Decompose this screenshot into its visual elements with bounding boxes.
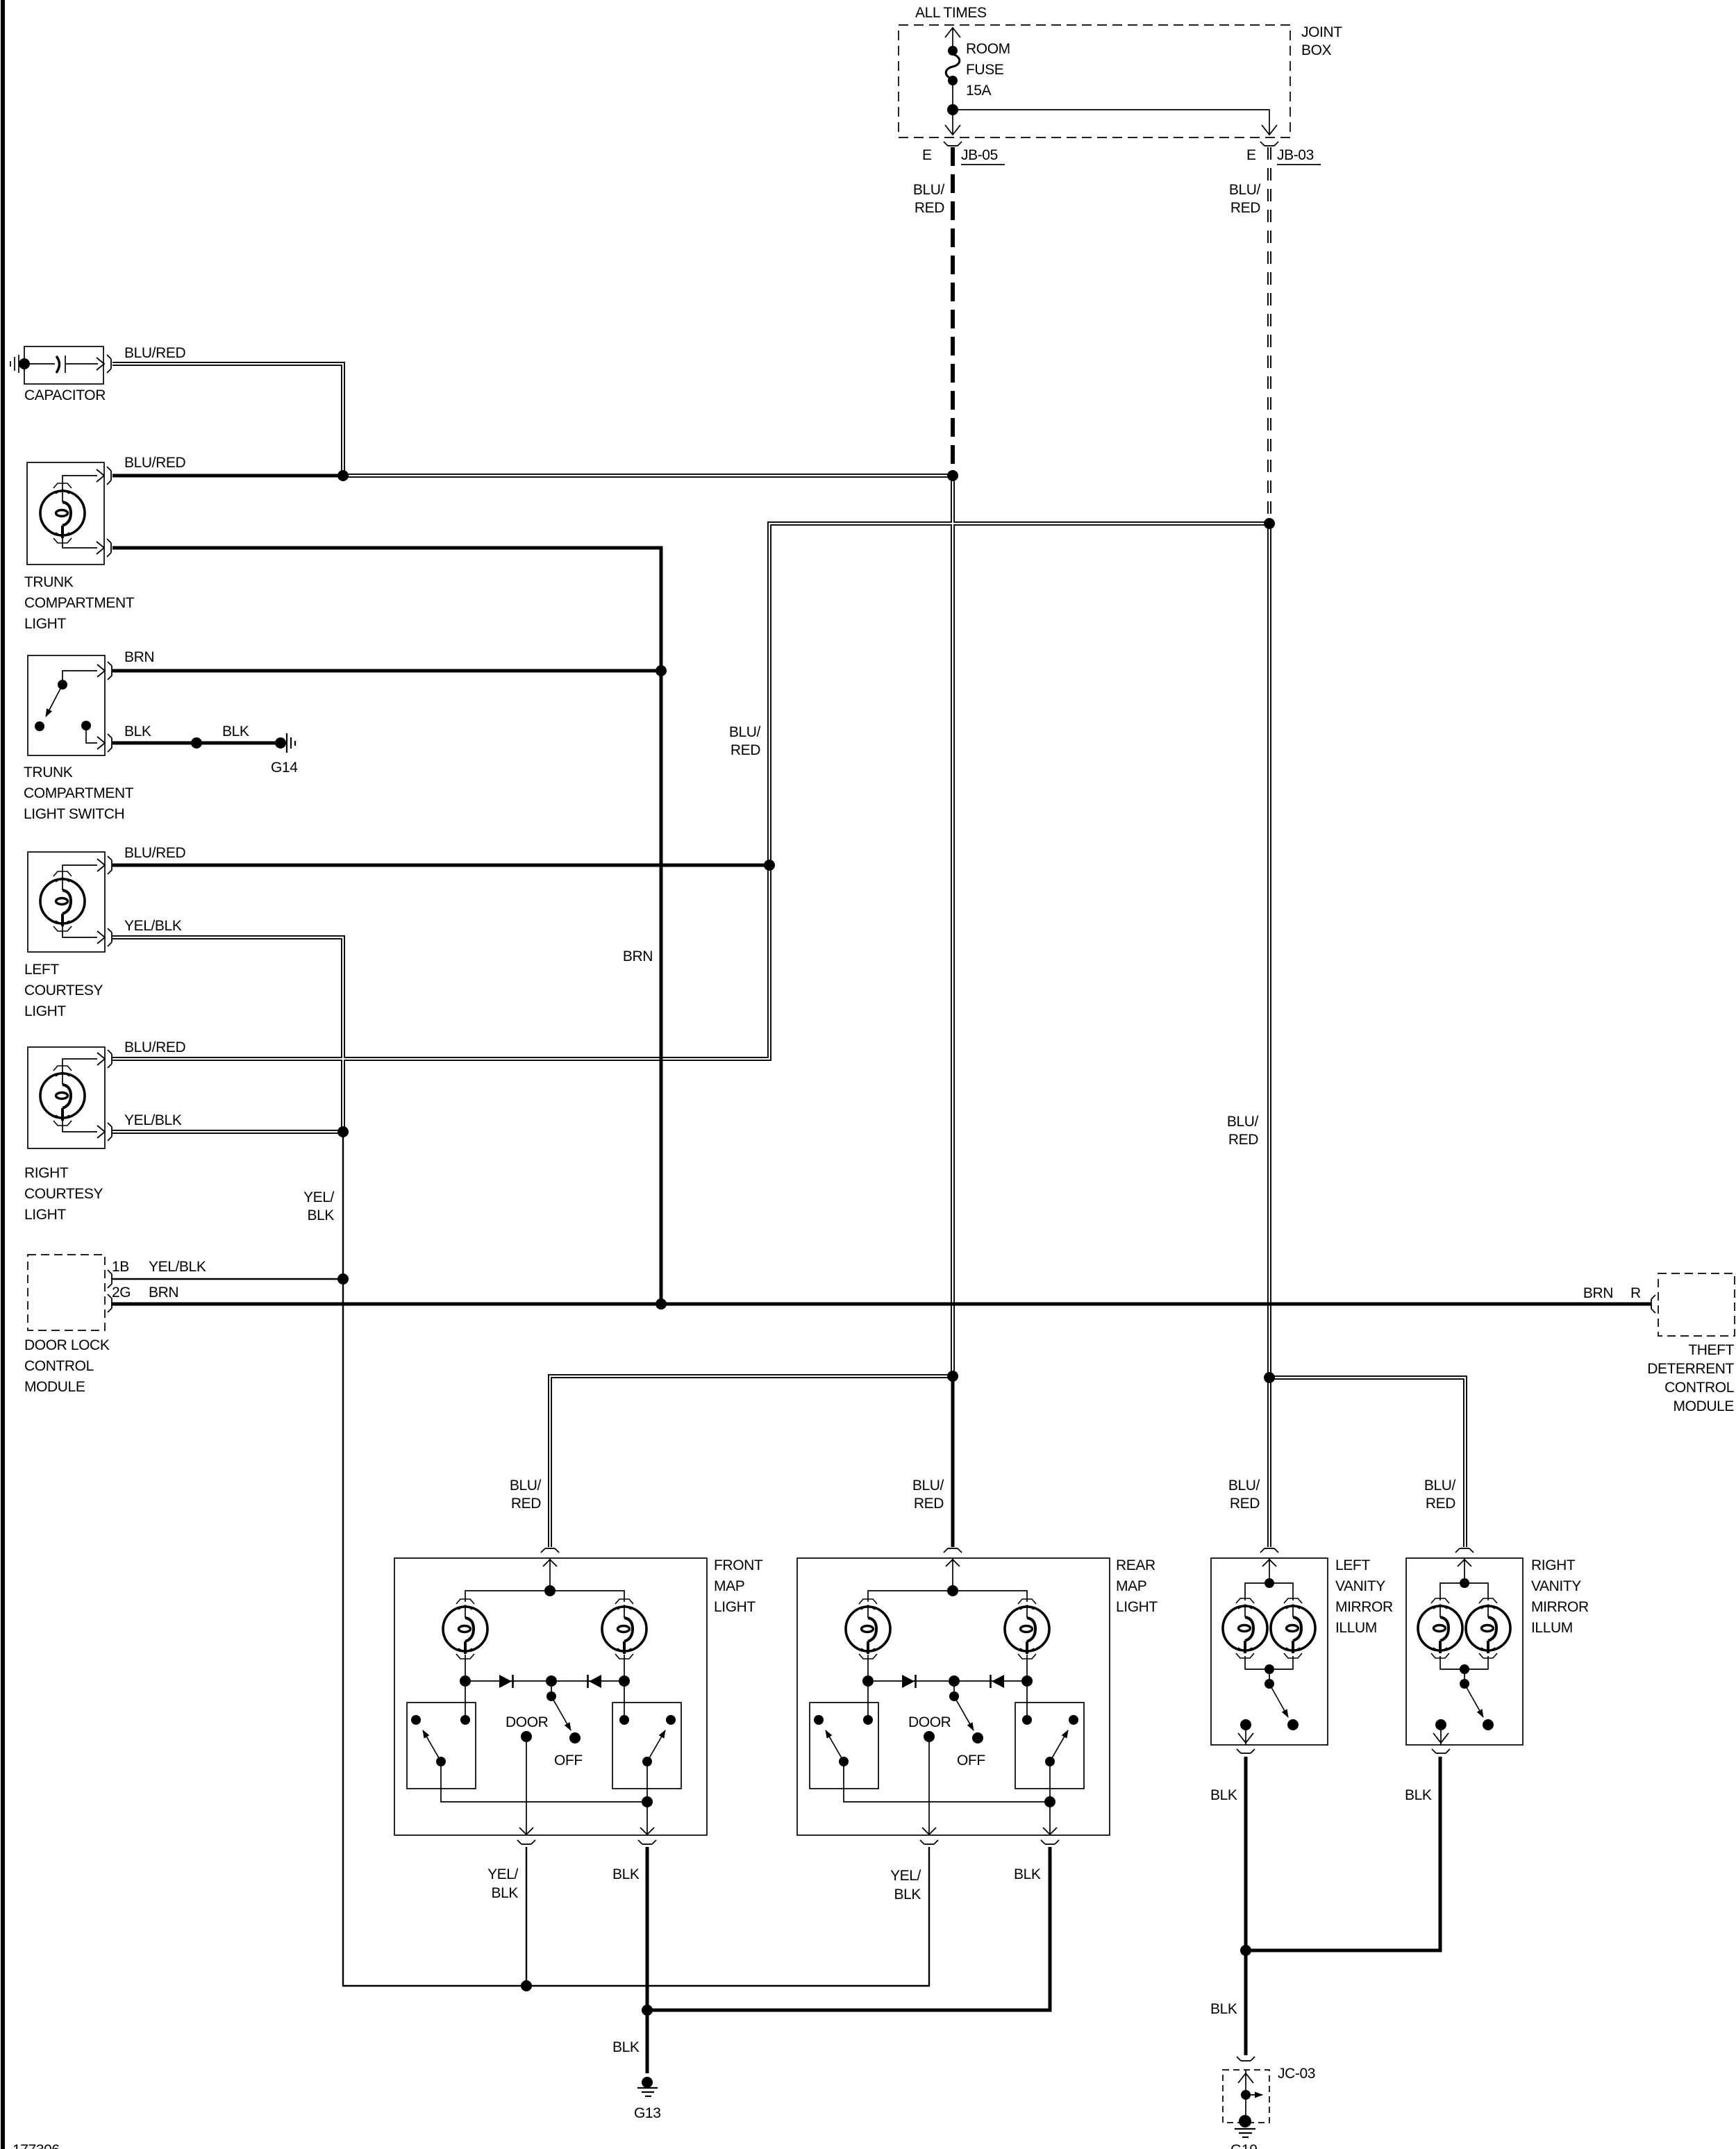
- svg-text:RED: RED: [1230, 200, 1260, 216]
- svg-text:CONTROL: CONTROL: [24, 1358, 94, 1374]
- svg-text:TRUNK: TRUNK: [24, 574, 74, 590]
- wire right vanity BLK join: [1246, 1757, 1440, 1950]
- svg-text:DOOR: DOOR: [506, 1714, 549, 1730]
- svg-text:JB-05: JB-05: [961, 147, 998, 163]
- svg-text:LIGHT: LIGHT: [1116, 1599, 1158, 1615]
- svg-text:ILLUM: ILLUM: [1335, 1620, 1377, 1636]
- lamp trunk compartment bulb: [40, 491, 85, 538]
- wire BLU/RED mid branch to courtesy lights: [112, 524, 1267, 1059]
- page border left edge: [1, 0, 5, 2149]
- wire right courtesy YEL/BLK: [112, 1130, 340, 1134]
- svg-text:RED: RED: [1230, 1496, 1260, 1512]
- svg-text:BLU/: BLU/: [1229, 182, 1261, 198]
- wire fuse feed vertical: [952, 28, 953, 47]
- wire BLU/RED branch to rear map light: [951, 1376, 955, 1547]
- wire BRN main run to theft deterrent module: [111, 1303, 1651, 1306]
- svg-text:DOOR: DOOR: [908, 1714, 951, 1730]
- wire lamp bus: [465, 1591, 624, 1602]
- node JC-03 branch arrow: [1246, 2094, 1262, 2096]
- svg-text:BLU/RED: BLU/RED: [124, 345, 185, 361]
- svg-text:BOX: BOX: [1301, 42, 1332, 58]
- wire trunk light BRN: [112, 548, 661, 671]
- svg-text:CAPACITOR: CAPACITOR: [24, 387, 106, 403]
- switch left door switch (box): [407, 1703, 476, 1789]
- capacitor C (noise suppression): [10, 346, 103, 384]
- svg-text:BLU/RED: BLU/RED: [124, 1039, 185, 1055]
- svg-text:R: R: [1630, 1285, 1641, 1301]
- svg-text:JB-03: JB-03: [1277, 147, 1314, 163]
- node BLK bottom junction: [642, 2005, 653, 2016]
- svg-text:ALL TIMES: ALL TIMES: [915, 5, 987, 21]
- svg-text:REAR: REAR: [1116, 1557, 1155, 1573]
- connector door lock pin 1B: [108, 1270, 112, 1288]
- svg-text:MIRROR: MIRROR: [1531, 1599, 1589, 1615]
- svg-text:BLU/RED: BLU/RED: [124, 455, 185, 471]
- switch right door switch (box): [612, 1703, 681, 1789]
- svg-text:G14: G14: [271, 760, 298, 776]
- svg-text:ROOM: ROOM: [966, 41, 1010, 57]
- connector YEL/BLK exit: [517, 1828, 535, 1844]
- svg-text:E: E: [1246, 147, 1256, 163]
- svg-text:LIGHT SWITCH: LIGHT SWITCH: [24, 806, 124, 822]
- node BLU/RED JB-05 junction: [947, 470, 958, 481]
- node BRN trunk junction: [656, 665, 667, 676]
- svg-text:CONTROL: CONTROL: [1664, 1380, 1734, 1396]
- svg-text:LIGHT: LIGHT: [24, 1207, 66, 1223]
- svg-text:BLU/: BLU/: [1228, 1478, 1260, 1494]
- svg-text:ILLUM: ILLUM: [1531, 1620, 1573, 1636]
- node capacitor/trunk BLU/RED junction: [337, 470, 349, 481]
- svg-text:BLU/: BLU/: [913, 182, 945, 198]
- wire left vanity BLK: [1244, 1757, 1248, 2055]
- connector trunk light BRN pin: [97, 539, 111, 557]
- rear map light (assembly box, copy shifted): [797, 1548, 1110, 1844]
- svg-text:DOOR LOCK: DOOR LOCK: [24, 1337, 110, 1353]
- wire switch pivot stub: [551, 1681, 552, 1694]
- fuse ROOM FUSE 15A: [948, 46, 958, 56]
- svg-text:THEFT: THEFT: [1688, 1342, 1734, 1358]
- lamp map right bulb: [602, 1607, 646, 1654]
- svg-text:FRONT: FRONT: [714, 1557, 763, 1573]
- lamp right courtesy bulb: [40, 1073, 85, 1121]
- wire BLU/RED branch to right vanity: [1269, 1378, 1465, 1547]
- svg-text:BLU/RED: BLU/RED: [124, 845, 185, 861]
- lamp left courtesy bulb: [40, 879, 85, 926]
- wire front map BLK to G13: [646, 1847, 649, 2073]
- node BLK output arrow: [1238, 1733, 1253, 1743]
- svg-text:BLK: BLK: [492, 1885, 519, 1901]
- right vanity mirror illum (box, copy shifted): [1406, 1548, 1523, 1753]
- node BLU/RED vanity junction: [1264, 1372, 1275, 1383]
- wire fuse to junction: [952, 84, 953, 135]
- wire lamp legs to diode bus: [465, 1655, 466, 1681]
- node BLU/RED courtesy junction: [764, 860, 775, 871]
- svg-text:BLK: BLK: [222, 724, 249, 739]
- connector theft deterrent pin R: [1651, 1295, 1655, 1313]
- wire BLK output: [1245, 1725, 1246, 1745]
- wire trunk light BLU/RED: [112, 474, 343, 478]
- svg-text:TRUNK: TRUNK: [24, 764, 73, 780]
- wire lamps to door switches: [465, 1681, 466, 1720]
- connector trunk switch BLK pin: [97, 734, 112, 752]
- node JB-03 exit arrow: [1262, 125, 1277, 135]
- svg-text:177306: 177306: [12, 2142, 60, 2149]
- connector JB-03: [1260, 142, 1278, 146]
- door lock control module (dashed box): [28, 1255, 105, 1330]
- joint connector JC-03 (dashed box): [1223, 2070, 1269, 2123]
- wire feed entry: [1269, 1558, 1270, 1583]
- node JC-03 entry arrow: [1238, 2073, 1253, 2083]
- node vanity dots: [1240, 1578, 1299, 1730]
- svg-text:BLK: BLK: [1405, 1787, 1432, 1803]
- svg-text:RED: RED: [731, 742, 760, 758]
- wire DOOR contact drop: [526, 1737, 527, 1835]
- wire JB-03 BLU/RED vertical run: [1267, 524, 1271, 1547]
- connector trunk switch BRN pin: [97, 662, 112, 680]
- svg-text:1B: 1B: [112, 1259, 129, 1275]
- svg-text:YEL/: YEL/: [487, 1866, 518, 1882]
- wire lamp bus top: [1245, 1583, 1293, 1600]
- wire trunk switch BRN: [112, 669, 661, 673]
- svg-text:BLU/: BLU/: [729, 724, 761, 740]
- wire capacitor BLU/RED (hollow): [112, 364, 343, 476]
- node contact dots: [411, 1585, 676, 1807]
- svg-text:JC-03: JC-03: [1278, 2066, 1315, 2082]
- svg-text:DETERRENT: DETERRENT: [1647, 1361, 1734, 1377]
- diode D1 (left, anode left): [499, 1675, 512, 1688]
- connector left courtesy YEL/BLK pin: [97, 928, 112, 946]
- svg-text:OFF: OFF: [957, 1753, 985, 1768]
- connector vanity BLK exit: [1237, 1749, 1255, 1753]
- wire rear map BLK join: [647, 1847, 1050, 2010]
- svg-text:VANITY: VANITY: [1531, 1578, 1581, 1594]
- svg-text:BLK: BLK: [308, 1207, 335, 1223]
- svg-text:LEFT: LEFT: [1335, 1557, 1370, 1573]
- connector map light feed: [541, 1548, 559, 1566]
- svg-text:MODULE: MODULE: [1674, 1398, 1735, 1414]
- wire JC-03 internal: [1245, 2070, 1246, 2118]
- svg-text:BLK: BLK: [1014, 1866, 1041, 1882]
- front map light (assembly box): [394, 1548, 707, 1844]
- svg-text:COURTESY: COURTESY: [24, 982, 103, 998]
- wire YEL/BLK run door lock to map lights: [343, 1132, 929, 1986]
- node fuse output junction: [947, 104, 958, 115]
- connector vanity feed: [1260, 1548, 1278, 1566]
- svg-text:BLU/: BLU/: [912, 1478, 944, 1494]
- svg-text:BLK: BLK: [894, 1887, 921, 1903]
- wire trunk switch BLK to G14: [112, 742, 278, 745]
- wire lamp bus bottom: [1245, 1656, 1293, 1669]
- lamp vanity right bulb: [1271, 1606, 1315, 1653]
- svg-text:BLU/: BLU/: [1424, 1478, 1456, 1494]
- svg-text:MODULE: MODULE: [24, 1379, 85, 1395]
- connector door lock pin 2G: [108, 1294, 112, 1312]
- wire feed entry: [549, 1558, 551, 1591]
- svg-text:G19: G19: [1230, 2142, 1258, 2149]
- switch trunk light switch blade: [46, 685, 62, 717]
- svg-text:OFF: OFF: [554, 1753, 583, 1768]
- theft deterrent control module (dashed box): [1658, 1273, 1735, 1336]
- svg-text:RIGHT: RIGHT: [24, 1165, 69, 1181]
- joint box (dashed enclosure): [899, 25, 1290, 137]
- svg-text:YEL/: YEL/: [303, 1189, 334, 1205]
- switch DOOR/OFF selector blade: [551, 1696, 571, 1730]
- node BLU/RED JB-03 junction: [1264, 518, 1275, 529]
- connector right courtesy YEL/BLK pin: [97, 1123, 112, 1141]
- lamp map left bulb: [443, 1607, 487, 1654]
- svg-text:BLK: BLK: [612, 2039, 640, 2055]
- wire left courtesy BLU/RED: [112, 864, 769, 867]
- svg-text:RIGHT: RIGHT: [1531, 1557, 1576, 1573]
- connector capacitor output: [97, 355, 111, 373]
- node JB-05 exit arrow: [945, 125, 960, 135]
- wire BRN vertical run: [660, 671, 663, 1304]
- switch vanity lid switch blade: [1269, 1684, 1288, 1717]
- svg-text:BLK: BLK: [1210, 2001, 1237, 2017]
- svg-text:LEFT: LEFT: [24, 962, 59, 978]
- svg-text:BRN: BRN: [124, 649, 154, 665]
- svg-text:YEL/BLK: YEL/BLK: [124, 918, 182, 934]
- node YEL/BLK courtesy junction: [337, 1126, 349, 1137]
- svg-text:BLK: BLK: [1210, 1787, 1237, 1803]
- wire BLU/RED junction to JB-05 drop: [343, 474, 953, 478]
- svg-text:15A: 15A: [966, 83, 992, 99]
- right courtesy light (lamp box): [28, 1047, 105, 1148]
- left vanity mirror illum (box): [1211, 1548, 1328, 1753]
- connector BLK exit: [638, 1828, 656, 1844]
- svg-text:RED: RED: [914, 1496, 944, 1512]
- node BRN main junction: [656, 1298, 667, 1310]
- wire door lock YEL/BLK: [111, 1278, 343, 1280]
- svg-text:MAP: MAP: [714, 1578, 744, 1594]
- wire JB-05 BLU/RED dashed (in harness): [951, 147, 955, 473]
- svg-text:BLK: BLK: [124, 724, 151, 739]
- svg-text:FUSE: FUSE: [966, 62, 1004, 78]
- connector JB-05: [944, 142, 962, 146]
- svg-text:YEL/BLK: YEL/BLK: [149, 1259, 206, 1275]
- ground G19: [1239, 2115, 1251, 2127]
- wire switch commons to BLK exit: [441, 1762, 647, 1835]
- svg-text:RED: RED: [1426, 1496, 1455, 1512]
- svg-text:BLK: BLK: [612, 1866, 640, 1882]
- connector trunk light BLU/RED pin: [97, 467, 111, 485]
- trunk compartment light switch (box): [28, 655, 105, 755]
- svg-text:BRN: BRN: [149, 1285, 178, 1301]
- svg-text:G13: G13: [634, 2105, 661, 2121]
- wire switch stub: [1269, 1669, 1270, 1682]
- connector left courtesy BLU/RED pin: [97, 856, 112, 874]
- wire front map DOOR YEL/BLK drop: [526, 1847, 527, 1986]
- wire JB-05 BLU/RED vertical run: [951, 476, 955, 1376]
- wire diode bus: [465, 1680, 624, 1682]
- node vanity BLK junction: [1240, 1945, 1251, 1956]
- svg-text:COMPARTMENT: COMPARTMENT: [24, 785, 134, 801]
- svg-text:MAP: MAP: [1116, 1578, 1146, 1594]
- wire junction to JB-03 drop: [953, 110, 1269, 133]
- svg-text:YEL/: YEL/: [890, 1868, 921, 1884]
- svg-text:COMPARTMENT: COMPARTMENT: [24, 595, 135, 611]
- connector right courtesy BLU/RED pin: [97, 1050, 112, 1068]
- ground G13: [637, 2088, 658, 2096]
- svg-text:E: E: [922, 147, 932, 163]
- node YEL/BLK door lock junction: [337, 1273, 349, 1285]
- svg-text:BLU/: BLU/: [1227, 1114, 1259, 1130]
- svg-text:VANITY: VANITY: [1335, 1578, 1385, 1594]
- svg-text:MIRROR: MIRROR: [1335, 1599, 1393, 1615]
- wire BLU/RED branch to front map light: [550, 1376, 953, 1547]
- node BLU/RED map light junction: [947, 1371, 958, 1382]
- diode D2 (right, anode right): [589, 1675, 601, 1688]
- svg-text:RED: RED: [915, 200, 944, 216]
- svg-text:YEL/BLK: YEL/BLK: [124, 1112, 182, 1128]
- node YEL/BLK bottom junction: [521, 1980, 532, 1991]
- svg-text:LIGHT: LIGHT: [24, 1003, 66, 1019]
- ground G14: [287, 733, 295, 753]
- left courtesy light (lamp box): [28, 852, 105, 952]
- svg-text:RED: RED: [1228, 1132, 1258, 1148]
- wire left courtesy YEL/BLK: [112, 937, 343, 1132]
- node BLK splice: [191, 737, 202, 749]
- svg-text:JOINT: JOINT: [1301, 24, 1342, 40]
- svg-text:BRN: BRN: [623, 948, 653, 964]
- wire JB-03 BLU/RED dashed (in harness): [1267, 147, 1271, 521]
- svg-text:2G: 2G: [112, 1285, 131, 1301]
- node battery feed arrow up: [945, 28, 960, 37]
- svg-text:LIGHT: LIGHT: [714, 1599, 756, 1615]
- svg-text:BLU/: BLU/: [510, 1478, 542, 1494]
- lamp vanity left bulb: [1223, 1606, 1267, 1653]
- connector JC-03: [1237, 2057, 1255, 2061]
- svg-text:RED: RED: [511, 1496, 541, 1512]
- trunk compartment light (lamp box): [27, 462, 104, 565]
- svg-text:COURTESY: COURTESY: [24, 1186, 103, 1202]
- svg-text:BRN: BRN: [1583, 1285, 1613, 1301]
- svg-text:LIGHT: LIGHT: [24, 616, 66, 632]
